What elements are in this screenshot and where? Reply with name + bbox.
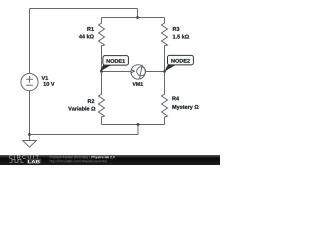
footer caption author [50,156,90,159]
voltmeter VM1 [131,65,146,80]
wire mid stub down [137,125,139,135]
resistor R1 [99,18,105,72]
junction dot bottom-mid [137,123,140,126]
voltage source V1 [21,74,38,91]
value label 44 kOhm [79,34,94,38]
resistor R3 [162,18,168,72]
wire voltmeter left [102,71,132,73]
junction dot node2 [163,70,166,73]
value label V1 [42,76,49,80]
footer caption title [92,156,115,159]
wire mid rail [102,17,165,19]
junction dot top [136,16,139,19]
resistor R2 [99,72,105,125]
junction dot node1 [100,70,103,73]
wire bottom horizontal [30,134,139,136]
wire top-right drop [137,9,139,18]
node NODE2 text [171,59,189,63]
junction dot bottom-left [28,133,31,136]
ref label VM1 [132,82,143,86]
footer logo CIRCUIT [9,155,39,159]
node NODE1 text [107,59,125,63]
wire voltmeter right [145,71,164,73]
wire top horizontal [30,8,138,10]
wire bottom connect R2-R4 [102,124,165,126]
node NODE1 flag [100,56,129,72]
footer logo wave [10,159,24,162]
ref label R3 [173,27,179,31]
wire V1 top lead [29,9,31,74]
value label Mystery Ohm [172,105,198,110]
node NODE2 flag [164,55,193,71]
value label 10 V [44,82,55,86]
footer logo LAB box [27,159,41,164]
footer bar [0,155,220,165]
footer caption url [50,160,107,163]
value label Variable Ohm [68,107,95,111]
ref label R2 [88,99,94,103]
value label 1.5 kOhm [173,35,189,39]
resistor R4 [162,72,168,125]
ref label R4 [172,97,179,101]
wire V1 bottom lead [29,91,31,141]
ref label R1 [87,27,94,31]
footer logo LAB [28,160,40,163]
ground [23,141,37,148]
voltmeter arrow glyph [131,70,134,73]
